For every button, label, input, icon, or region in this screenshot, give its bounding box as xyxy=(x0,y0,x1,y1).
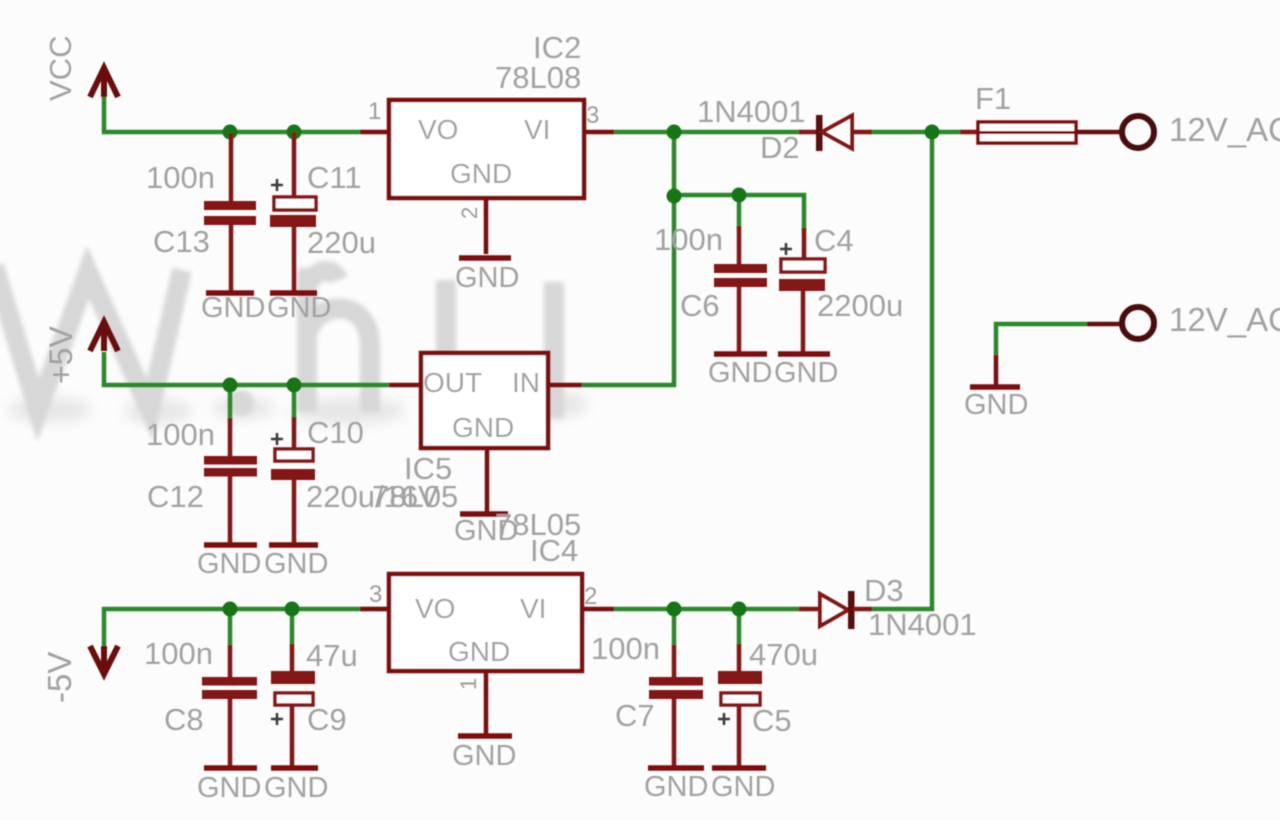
D2 cathode bar xyxy=(816,115,823,151)
capacitor C9 47u xyxy=(271,638,358,767)
IC4 pin 2 lead VI xyxy=(581,607,614,612)
svg-text:C8: C8 xyxy=(164,702,204,737)
wire C7 stub xyxy=(672,609,677,646)
wire C10 stub xyxy=(292,385,297,419)
svg-text:1: 1 xyxy=(456,678,481,690)
svg-text:+5V: +5V xyxy=(43,326,79,384)
wire -5V rail xyxy=(104,609,389,646)
D3 cathode bar xyxy=(848,591,855,629)
ground under C13 xyxy=(201,292,265,324)
ground under C5 xyxy=(711,768,775,803)
svg-text:3: 3 xyxy=(369,581,382,608)
svg-text:47u: 47u xyxy=(306,638,358,673)
node junction -5V C8 xyxy=(223,602,238,617)
watermark xyxy=(0,266,588,424)
IC5 pin lead IN xyxy=(547,383,582,388)
diode D3 xyxy=(799,573,977,642)
svg-text:GND: GND xyxy=(964,389,1028,421)
svg-text:100n: 100n xyxy=(146,160,215,195)
svg-text:GND: GND xyxy=(711,771,775,803)
F1 body xyxy=(978,122,1076,143)
ground under C4 xyxy=(774,354,838,389)
D2 cathode-side lead xyxy=(851,130,872,135)
svg-text:220u: 220u xyxy=(307,225,376,260)
svg-text:100n: 100n xyxy=(591,631,660,666)
node junction +5V C12 xyxy=(223,378,238,393)
svg-text:F1: F1 xyxy=(975,81,1011,116)
svg-text:C5: C5 xyxy=(752,703,792,738)
IC5 pin lead GND xyxy=(485,448,490,514)
wire VCC rail xyxy=(104,96,360,132)
svg-text:GND: GND xyxy=(197,772,261,804)
svg-text:100n: 100n xyxy=(654,222,723,257)
terminal pad 12V_AC top xyxy=(1122,111,1280,148)
svg-text:VO: VO xyxy=(415,593,455,624)
wire C5 stub xyxy=(737,609,742,645)
IC4 pin 3 lead VO xyxy=(360,607,390,612)
regulator IC5 body xyxy=(372,353,582,514)
node junction VCC-C11 xyxy=(287,125,302,140)
capacitor C13 100n xyxy=(146,133,256,292)
D3 triangle xyxy=(820,594,848,626)
ground under C9 xyxy=(264,768,328,804)
svg-text:1N4001: 1N4001 xyxy=(697,94,806,129)
node junction C6 xyxy=(732,188,747,203)
wire 12V_AC2 to GND xyxy=(996,324,1087,357)
svg-text:1: 1 xyxy=(368,98,381,125)
ground under IC4 pin1 xyxy=(452,736,516,772)
node junction VCC-C13 xyxy=(223,125,238,140)
capacitor C8 100n xyxy=(144,636,257,767)
svg-text:100n: 100n xyxy=(144,636,213,671)
svg-text:GND: GND xyxy=(201,292,265,324)
IC4 pin 1 lead GND xyxy=(484,671,489,736)
node junction branch C6C4 xyxy=(667,189,682,204)
svg-text:100n: 100n xyxy=(146,417,215,452)
IC2 pin 3 lead VI xyxy=(583,130,614,135)
regulator IC2 body xyxy=(360,30,614,254)
capacitor C10 220u/16V xyxy=(271,415,439,544)
svg-text:3: 3 xyxy=(586,102,599,129)
svg-text:2: 2 xyxy=(457,207,482,219)
svg-text:GND: GND xyxy=(452,412,514,443)
wire +5V rail xyxy=(104,352,389,385)
ground under C11 xyxy=(267,292,331,324)
svg-text:1N4001: 1N4001 xyxy=(868,607,977,642)
svg-text:IC4: IC4 xyxy=(530,533,578,568)
node junction rect-net top xyxy=(667,125,682,140)
wire C9 stub xyxy=(290,609,295,645)
supply arrow VCC xyxy=(90,68,118,97)
F1 right lead xyxy=(1075,130,1123,135)
svg-text:C11: C11 xyxy=(307,160,362,195)
supply arrow -5V xyxy=(90,646,118,674)
svg-text:C4: C4 xyxy=(814,223,854,258)
svg-text:VI: VI xyxy=(520,593,546,624)
svg-text:VO: VO xyxy=(418,114,458,145)
wire C8 stub xyxy=(228,609,233,646)
capacitor C5 470u xyxy=(718,637,818,766)
svg-text:GND: GND xyxy=(197,548,261,580)
IC2 pin 1 lead VO xyxy=(360,130,390,135)
wire C6 stub xyxy=(737,195,742,228)
capacitor C11 220u xyxy=(270,132,376,292)
wire vertical 12V rect net xyxy=(582,132,674,385)
svg-text:GND: GND xyxy=(452,740,516,772)
svg-text:2200u: 2200u xyxy=(817,288,903,323)
svg-text:-5V: -5V xyxy=(41,652,78,703)
node junction riser top xyxy=(925,125,940,140)
svg-text:GND: GND xyxy=(774,357,838,389)
svg-text:C10: C10 xyxy=(307,415,364,450)
svg-text:GND: GND xyxy=(450,158,512,189)
svg-text:2: 2 xyxy=(584,583,597,610)
node junction -5V C9 xyxy=(285,602,300,617)
svg-text:IN: IN xyxy=(512,367,540,398)
wire IC2 pin3 to node xyxy=(613,130,801,135)
svg-text:OUT: OUT xyxy=(423,367,482,398)
IC2 pin 2 lead GND xyxy=(484,198,489,254)
svg-text:220u/16V: 220u/16V xyxy=(306,479,439,514)
node junction -5V C5 xyxy=(732,602,747,617)
ground under IC2 pin2 xyxy=(455,258,519,294)
terminal pad 12V_AC bottom xyxy=(1087,301,1280,339)
wire D2 cathode to fuse node xyxy=(870,130,961,135)
capacitor C7 100n xyxy=(591,631,703,766)
wire branch to C6 C4 xyxy=(674,195,804,230)
svg-text:GND: GND xyxy=(455,262,519,294)
svg-text:GND: GND xyxy=(448,636,510,667)
ground under C6 xyxy=(708,354,772,389)
svg-text:C12: C12 xyxy=(147,479,204,514)
ground under C12 xyxy=(197,545,261,580)
ground under terminal 2 xyxy=(964,355,1028,421)
svg-text:C13: C13 xyxy=(153,224,210,259)
ground under IC5 xyxy=(454,514,518,547)
svg-text:GND: GND xyxy=(267,292,331,324)
terminal lead xyxy=(1087,322,1123,327)
svg-text:C7: C7 xyxy=(615,698,655,733)
node junction +5V C10 xyxy=(287,378,302,393)
svg-text:VI: VI xyxy=(524,114,550,145)
ground under C10 xyxy=(264,545,328,580)
svg-text:GND: GND xyxy=(264,772,328,804)
D3 cathode-side lead xyxy=(853,607,872,612)
svg-text:C9: C9 xyxy=(307,702,347,737)
ground under C7 xyxy=(644,768,708,803)
capacitor C6 100n xyxy=(654,222,767,352)
ground under C8 xyxy=(197,768,261,804)
capacitor C4 2200u xyxy=(779,223,903,352)
regulator IC4 body xyxy=(360,507,614,736)
D2 anode lead xyxy=(799,130,818,135)
svg-text:GND: GND xyxy=(264,548,328,580)
svg-text:GND: GND xyxy=(644,771,708,803)
D3 anode lead xyxy=(799,607,820,612)
F1 left lead xyxy=(960,130,979,135)
svg-text:78L08: 78L08 xyxy=(495,60,581,95)
wire IC4 pin2 to D3 xyxy=(613,607,801,612)
svg-text:GND: GND xyxy=(708,357,772,389)
svg-text:470u: 470u xyxy=(749,637,818,672)
capacitor C12 100n xyxy=(146,417,257,544)
D2 triangle xyxy=(822,116,852,149)
svg-text:D2: D2 xyxy=(760,130,800,165)
wire C12 stub xyxy=(228,385,233,420)
wire D3 to vertical riser xyxy=(871,132,932,609)
supply arrow +5V xyxy=(90,322,118,351)
svg-text:12V_AC: 12V_AC xyxy=(1169,301,1280,338)
diode D2 xyxy=(697,94,872,165)
node junction -5V C7 xyxy=(667,602,682,617)
IC5 pin lead OUT xyxy=(389,383,422,388)
svg-text:12V_AC: 12V_AC xyxy=(1169,111,1280,148)
fuse F1 xyxy=(960,81,1123,143)
svg-text:VCC: VCC xyxy=(43,36,78,101)
svg-text:D3: D3 xyxy=(864,573,904,608)
svg-text:C6: C6 xyxy=(680,288,720,323)
